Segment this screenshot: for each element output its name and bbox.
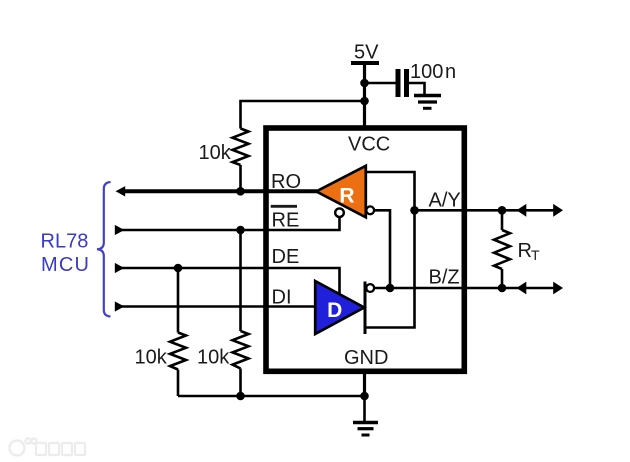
junction at capacitor branch [360,79,369,88]
junction A/Y at RT [498,206,507,215]
wire receiver input from A node [365,172,415,328]
wire top rail to pull-up [241,101,365,129]
op-amp D driver triangle [315,281,364,334]
ground symbol at capacitor [414,96,441,109]
junction B/Z internal [386,284,395,293]
arrow A/Y right [553,204,563,217]
arrow B/Z right [553,282,563,295]
capacitor C1 100n left plate [396,69,401,97]
ground symbol main [353,423,378,436]
junction RO pull-up [236,187,245,196]
wire RE pull-down vertical [239,230,242,331]
wire DI line [120,305,316,308]
junction A/Y internal [410,206,419,215]
junction DE pull-down [174,264,183,273]
wire RE line [120,217,340,231]
wire receiver B input branch [375,210,390,288]
arrow RO to MCU [116,186,126,196]
wire A/Y line [415,209,555,212]
junction RE pull-down [236,226,245,235]
wire RT top [501,210,504,230]
svg-text:DI: DI [272,286,292,308]
arrow B/Z left [517,282,527,295]
brace RL78 MCU [97,182,111,317]
svg-text:R: R [339,184,354,207]
wire DE line [120,268,340,296]
junction GND rail [360,392,369,401]
svg-text:D: D [327,299,342,322]
junction bottom rail [236,392,245,401]
resistor RT termination [494,230,510,269]
svg-text:VCC: VCC [348,134,390,156]
svg-text:T: T [531,247,540,263]
svg-text:RO: RO [271,171,301,193]
junction B/Z at RT [498,284,507,293]
wire DE pull-down vertical [177,268,180,333]
svg-text:B/Z: B/Z [429,266,460,288]
svg-text:DE: DE [272,246,300,268]
bubble driver Z output [366,284,374,292]
svg-text:MCU: MCU [41,254,90,276]
svg-text:10k: 10k [199,142,232,164]
wire pull-up to RO [239,165,242,191]
svg-text:10k: 10k [135,347,168,369]
wire to bottom rail [239,369,242,397]
svg-text:GND: GND [344,347,388,369]
wire capacitor to ground [409,83,425,95]
arrow RE from MCU [115,225,125,235]
bubble RE enable [335,208,344,217]
arrow A/Y left [517,204,527,217]
bubble receiver B input [366,206,374,214]
wire to bottom rail [177,370,180,397]
arrow DE from MCU [115,263,125,273]
resistor R1 10k pull-up [233,129,249,166]
svg-text:A/Y: A/Y [429,189,461,211]
svg-text:5V: 5V [354,42,379,64]
wire RO line [120,189,317,193]
wire bottom ground rail [178,395,365,398]
wire 5V down to VCC pin [363,61,366,128]
op-amp R receiver triangle [316,166,366,218]
resistor R3 10k RE pull-down [233,331,249,369]
svg-text:RE: RE [272,209,300,231]
capacitor C1 100n right plate [404,69,409,97]
overline of RE [271,205,297,208]
junction at top rail [360,97,369,106]
wire GND pin [363,373,366,396]
svg-text:RL78: RL78 [41,230,89,252]
IC box U1 transceiver [266,128,464,371]
wire to capacitor [365,82,396,85]
svg-text:10k: 10k [197,347,230,369]
5V supply terminal bar [351,61,379,65]
arrow DI from MCU [115,301,125,311]
wire RT bottom [501,269,504,288]
wire to ground symbol [363,396,366,422]
watermark logo [10,438,37,455]
driver output bar [364,282,367,335]
svg-text:R: R [518,240,532,262]
watermark text blocks [36,443,85,455]
wire B/Z line [375,287,554,290]
svg-text:100 n: 100 n [410,61,456,83]
resistor R2 10k DE pull-down [170,333,186,370]
